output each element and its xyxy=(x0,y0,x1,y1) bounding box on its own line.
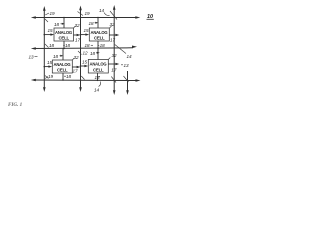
leader 18 label U3 top xyxy=(60,55,63,57)
leader 13 right xyxy=(121,64,123,66)
leader 32 U1 xyxy=(74,26,76,28)
analog cell U2 output wire 17 (crosses V3) xyxy=(109,34,117,36)
V1 bottom arrowhead xyxy=(43,87,46,92)
svg-text:ANALOG: ANALOG xyxy=(90,61,108,66)
svg-text:18: 18 xyxy=(66,74,72,79)
svg-text:ANALOG: ANALOG xyxy=(91,30,109,35)
analog cell U1 bottom stub xyxy=(63,41,65,49)
tick at V2 x H2 xyxy=(78,51,82,55)
H1 right arrowhead xyxy=(135,16,140,19)
svg-text:19: 19 xyxy=(48,74,54,79)
tick at V4 x H3 xyxy=(124,76,129,82)
svg-text:18: 18 xyxy=(95,75,101,80)
analog cell U4 top stub xyxy=(97,48,99,59)
tick at V1 x H2 xyxy=(45,44,49,48)
tick at V2 x H3 xyxy=(81,76,84,80)
svg-text:18: 18 xyxy=(54,22,60,27)
svg-text:FIG. 1: FIG. 1 xyxy=(8,102,23,108)
analog cell U3 output wire 17 xyxy=(72,66,78,68)
tick at V1 x H1 xyxy=(45,19,48,22)
V3 top arrowhead xyxy=(113,5,116,10)
svg-text:18: 18 xyxy=(89,21,95,26)
analog cell U2 top stub xyxy=(97,18,99,29)
tick at V3 x H1 xyxy=(110,11,117,20)
H2 left arrowhead xyxy=(31,47,36,50)
V1 top arrowhead xyxy=(43,6,46,11)
leader 18 U2 bottom b xyxy=(98,45,100,47)
svg-text:19: 19 xyxy=(50,11,56,16)
analog cell U4 input wire 15 xyxy=(81,65,87,67)
analog cell U2 bottom stub xyxy=(97,41,99,48)
svg-text:15: 15 xyxy=(48,28,54,33)
svg-text:14: 14 xyxy=(127,54,133,59)
V4 bottom arrowhead xyxy=(126,90,129,95)
analog cell U3 box xyxy=(52,60,72,73)
leader 14 at V3 x H2 xyxy=(115,45,126,54)
svg-text:18: 18 xyxy=(53,54,59,59)
V3 bottom arrowhead xyxy=(113,90,116,95)
leader 14 top xyxy=(104,13,110,16)
svg-text:32: 32 xyxy=(112,53,118,58)
svg-text:15: 15 xyxy=(82,60,88,65)
H2 right arrowhead xyxy=(132,46,137,49)
svg-text:18: 18 xyxy=(90,51,96,56)
leader 13 left xyxy=(35,56,38,58)
H1 left arrowhead xyxy=(31,16,36,19)
svg-text:CELL: CELL xyxy=(57,68,68,73)
svg-text:17: 17 xyxy=(73,69,79,74)
analog cell U1 output wire 17 xyxy=(74,34,79,36)
analog cell U1 box xyxy=(54,28,74,41)
svg-text:17: 17 xyxy=(110,38,116,43)
analog cell U4 output wire 17 (crosses V3) xyxy=(108,63,117,65)
svg-text:CELL: CELL xyxy=(94,36,105,41)
vertical bus V3 xyxy=(113,8,115,92)
leader 18 U1 bottom xyxy=(63,44,65,46)
leader 18 label U4 top xyxy=(96,52,99,54)
analog cell U1 top stub xyxy=(63,18,65,29)
reference numerals xyxy=(29,8,154,93)
svg-text:17: 17 xyxy=(75,38,81,43)
horizontal bus H2 xyxy=(33,47,133,50)
svg-text:13: 13 xyxy=(124,63,130,68)
analog cell U3 top stub xyxy=(62,49,64,61)
svg-text:15: 15 xyxy=(84,28,90,33)
vertical bus V1 xyxy=(43,9,45,89)
vertical bus V2 xyxy=(80,9,82,90)
analog cell U3 bottom stub xyxy=(62,73,64,80)
svg-text:12: 12 xyxy=(83,51,89,56)
leader 19 bottom left xyxy=(45,77,48,79)
leader 18 U2 bottom xyxy=(91,44,93,46)
svg-text:18: 18 xyxy=(65,43,71,48)
horizontal bus H3 xyxy=(33,79,138,82)
svg-text:13: 13 xyxy=(29,55,35,60)
analog cell U3 input wire 15 xyxy=(44,66,50,68)
svg-text:CELL: CELL xyxy=(93,67,104,72)
leader 32 U4 xyxy=(108,58,110,60)
H3 right arrowhead xyxy=(136,79,141,82)
svg-text:19: 19 xyxy=(85,11,91,16)
crossing ticks xyxy=(35,11,129,87)
leader 14 bottom xyxy=(99,82,101,87)
svg-text:ANALOG: ANALOG xyxy=(55,30,73,35)
analog cell U2 box xyxy=(89,28,109,41)
svg-text:18: 18 xyxy=(85,43,91,48)
tick at V1 x H3 xyxy=(45,76,49,79)
svg-text:ANALOG: ANALOG xyxy=(54,62,72,67)
leader 32 U3 xyxy=(72,58,74,60)
vertical bus stub V4 (bottom right) xyxy=(127,71,129,92)
svg-text:14: 14 xyxy=(99,8,105,13)
svg-text:18: 18 xyxy=(49,43,55,48)
analog cell U2 input wire 15 xyxy=(81,34,88,36)
horizontal bus H1 xyxy=(33,17,138,19)
tick at V3 x H3 xyxy=(111,77,116,83)
leader 18 U3 bottom xyxy=(64,75,66,77)
analog cell U1 input wire 15 xyxy=(44,34,52,36)
leader 18 label U1 top xyxy=(61,23,64,25)
svg-text:CELL: CELL xyxy=(59,36,70,41)
leader 18 label U2 top xyxy=(95,22,98,24)
leader 32 U2 xyxy=(110,26,112,28)
svg-text:14: 14 xyxy=(94,88,100,93)
junction dots xyxy=(44,17,99,81)
svg-text:15: 15 xyxy=(47,60,53,65)
leader 18 U4 bottom xyxy=(98,76,100,78)
svg-text:32: 32 xyxy=(74,55,80,60)
analog cell U4 bottom stub xyxy=(97,73,99,80)
svg-text:32: 32 xyxy=(110,22,116,27)
tick at V2 x H1 xyxy=(78,12,84,16)
analog cell U4 box xyxy=(88,60,108,74)
V2 bottom arrowhead xyxy=(79,87,82,92)
svg-text:32: 32 xyxy=(75,23,81,28)
H3 left arrowhead xyxy=(31,79,36,82)
leader 19 top left xyxy=(45,13,49,15)
V2 top arrowhead xyxy=(79,6,82,11)
svg-text:18: 18 xyxy=(100,43,106,48)
svg-text:17: 17 xyxy=(111,68,117,73)
